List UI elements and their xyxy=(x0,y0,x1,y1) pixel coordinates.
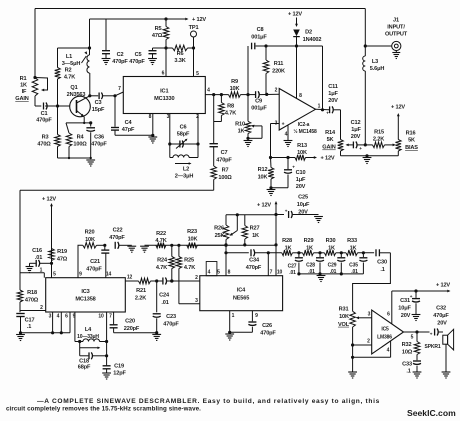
resistor R33 1K xyxy=(346,250,374,256)
wire IC3 pin2 xyxy=(20,310,46,312)
label R10 1K xyxy=(235,122,245,135)
capacitor C35 .01 xyxy=(359,253,367,274)
svg-text:IC3: IC3 xyxy=(81,289,89,295)
svg-text:.01: .01 xyxy=(289,270,296,276)
wire C11 to R14 xyxy=(340,110,342,140)
svg-text:R25: R25 xyxy=(184,258,194,264)
connector J1 xyxy=(392,41,401,50)
capacitor C29 .01 xyxy=(337,253,345,276)
audio amp IC5 LM386 xyxy=(372,310,404,354)
label C10 1uF 20V xyxy=(296,170,306,190)
label C5 470pF xyxy=(129,52,145,65)
label C31 10uF 20V xyxy=(398,298,411,319)
svg-text:+: + xyxy=(292,165,295,170)
label pin 2 IC5 xyxy=(367,339,370,345)
svg-text:R18: R18 xyxy=(27,290,37,296)
svg-text:2: 2 xyxy=(40,305,43,311)
svg-text:L3: L3 xyxy=(372,59,378,65)
svg-text:3: 3 xyxy=(368,312,371,318)
wire IC1 pin8 to ground xyxy=(148,114,157,144)
watermark SeekIC.com xyxy=(407,408,456,418)
svg-text:C6: C6 xyxy=(180,125,187,131)
wire IC3 pin9 up xyxy=(78,245,83,277)
wire IC2 output xyxy=(316,108,330,111)
svg-text:.1: .1 xyxy=(27,324,31,330)
wire NE565 pin8 up xyxy=(224,244,227,276)
svg-text:GAIN: GAIN xyxy=(15,96,28,102)
transistor Q1 2N3563 xyxy=(70,96,91,117)
label R5 47ohm xyxy=(152,26,163,39)
svg-text:R31: R31 xyxy=(339,307,349,313)
label R25 4.7K xyxy=(184,258,195,272)
svg-text:10K: 10K xyxy=(297,150,307,156)
label pin 5 IC3 xyxy=(53,272,56,278)
svg-text:R5: R5 xyxy=(155,26,162,32)
resistor R8 4.7K xyxy=(214,95,225,122)
svg-text:R14: R14 xyxy=(325,130,336,136)
ground below C17 xyxy=(16,335,25,341)
svg-text:25K: 25K xyxy=(215,233,225,239)
wire pin3 node y157.5 xyxy=(269,156,295,159)
op-amp IC3 MC1358 box xyxy=(46,278,126,312)
wire R31 bottom chain xyxy=(348,327,357,378)
label C6 58pF xyxy=(177,125,190,138)
wire C3 to IC1 pin7 xyxy=(115,92,123,96)
capacitor C12 1uF 20V xyxy=(353,142,365,152)
label C33 .1 xyxy=(402,362,412,375)
svg-text:47pF: 47pF xyxy=(122,127,135,133)
label IC3 MC1358 xyxy=(75,289,95,303)
svg-text:47Ω: 47Ω xyxy=(152,33,163,39)
wire R14 bottom xyxy=(341,151,399,157)
svg-text:R6: R6 xyxy=(177,51,184,57)
label pin 9 NE565 xyxy=(255,313,258,319)
svg-text:58pF: 58pF xyxy=(177,132,190,138)
svg-text:5K: 5K xyxy=(408,138,415,144)
label pin 4 IC5 xyxy=(387,348,390,354)
resistor R13 10K xyxy=(295,155,317,161)
wire R26 R27 top rail xyxy=(226,213,276,225)
svg-text:R29: R29 xyxy=(304,238,314,244)
svg-text:4.7K: 4.7K xyxy=(156,265,167,271)
resistor R24 4.7K xyxy=(169,245,175,282)
svg-text:R19: R19 xyxy=(57,249,67,255)
wire top border corner down xyxy=(364,9,367,48)
svg-text:C28: C28 xyxy=(306,263,315,269)
resistor R9 10K xyxy=(229,92,256,98)
label TP1 xyxy=(189,25,199,31)
label pin 6 IC1 xyxy=(162,71,165,77)
wire Q1 collector to L1 xyxy=(88,73,91,97)
svg-text:C9: C9 xyxy=(255,99,262,105)
svg-text:½ MC1458: ½ MC1458 xyxy=(293,128,317,135)
svg-text:+: + xyxy=(326,111,329,116)
wire net y245 xyxy=(145,244,277,247)
resistor R21 2.2K xyxy=(139,278,163,284)
wire L3 junction xyxy=(364,143,373,146)
wire R1 bottom to C1 xyxy=(34,96,36,106)
label pin 8 IC1 xyxy=(149,114,152,120)
label IC2-a xyxy=(298,122,310,128)
inductor L1 adjustable xyxy=(82,48,90,73)
capacitor C16 .01 xyxy=(26,260,52,273)
caption line 1 xyxy=(37,398,380,405)
label pin 12 IC3 xyxy=(127,275,133,281)
wire emitter network bottom xyxy=(58,157,92,159)
svg-text:10μF: 10μF xyxy=(297,202,310,208)
svg-text:4.7K: 4.7K xyxy=(155,238,166,244)
svg-text:1K: 1K xyxy=(328,245,335,251)
label C26 470pF xyxy=(260,323,276,337)
capacitor C22 470pF xyxy=(115,242,136,252)
label pin 8 NE565 xyxy=(228,270,231,276)
label +12V at R13 xyxy=(320,156,334,162)
svg-text:15pF: 15pF xyxy=(92,107,105,113)
wire IC3 pin10 down xyxy=(106,312,108,365)
svg-text:2.2K: 2.2K xyxy=(373,137,384,143)
label R31 10K VOL xyxy=(338,307,350,328)
label pin 8 IC2 xyxy=(299,93,302,99)
svg-text:C20: C20 xyxy=(125,319,135,325)
label R33 1K xyxy=(347,238,357,251)
label R26 25K xyxy=(214,226,224,240)
svg-text:+ 12V: + 12V xyxy=(436,283,450,289)
svg-text:+ 12V: + 12V xyxy=(288,12,302,18)
resistor R28 1K xyxy=(282,250,303,256)
label pin 3 NE565 xyxy=(195,298,198,304)
capacitor C2 470pF to ground xyxy=(102,19,111,65)
label +12V rail xyxy=(192,17,206,23)
label R20 10K xyxy=(85,230,95,244)
capacitor C4 47pF xyxy=(111,96,154,137)
label R27 1K xyxy=(250,226,260,240)
svg-text:3—5μH: 3—5μH xyxy=(62,61,81,67)
svg-text:C16: C16 xyxy=(32,248,42,254)
label C30 .1 xyxy=(377,260,387,274)
svg-text:470pF: 470pF xyxy=(112,59,128,65)
ground below C36 xyxy=(86,160,95,166)
svg-text:10μF: 10μF xyxy=(398,306,411,312)
label C16 .01 xyxy=(32,248,42,261)
resistor R22 4.7K xyxy=(156,243,166,249)
capacitor C24 .01 xyxy=(163,278,200,285)
svg-text:R22: R22 xyxy=(156,231,166,237)
potentiometer R14 5K GAIN xyxy=(338,140,353,152)
label IC1 MC1330 xyxy=(154,89,174,103)
label pins 3 4 6 IC3 xyxy=(49,314,69,320)
svg-text:14: 14 xyxy=(106,272,112,278)
svg-text:C29: C29 xyxy=(328,263,337,269)
capacitor C10 1uF 20V xyxy=(271,158,295,188)
svg-text:C12: C12 xyxy=(351,120,361,126)
svg-text:+ 12V: + 12V xyxy=(42,197,56,203)
svg-text:IC1: IC1 xyxy=(160,89,168,95)
label half MC1458 xyxy=(293,128,317,135)
svg-text:3: 3 xyxy=(195,298,198,304)
svg-text:.01: .01 xyxy=(161,300,168,306)
label R15 2.2K xyxy=(373,130,384,143)
label R14 5K GAIN xyxy=(322,130,336,151)
label C12 1uF 20V xyxy=(351,120,362,140)
capacitor C20 220pF xyxy=(110,312,159,334)
svg-text:220K: 220K xyxy=(272,69,285,75)
svg-text:IC5: IC5 xyxy=(381,327,389,333)
label C35 .01 xyxy=(349,263,358,276)
capacitor C9 .001uF xyxy=(256,91,280,98)
svg-text:R16: R16 xyxy=(406,131,416,137)
svg-text:C24: C24 xyxy=(159,293,170,299)
label C36 470pF xyxy=(91,135,107,148)
svg-text:4.7K: 4.7K xyxy=(64,75,75,81)
svg-text:C27: C27 xyxy=(288,264,297,270)
resistor R11 220K xyxy=(263,46,269,94)
resistor R15 2.2K xyxy=(373,142,396,148)
svg-text:12pF: 12pF xyxy=(113,371,126,377)
svg-text:OUTPUT: OUTPUT xyxy=(385,32,408,38)
resistor R4 100ohm xyxy=(66,123,72,158)
label R12 10K xyxy=(258,167,268,181)
svg-text:C25: C25 xyxy=(298,195,308,201)
svg-text:1K: 1K xyxy=(238,129,245,135)
label pin 10 IC3 xyxy=(98,314,104,320)
ground below speaker xyxy=(442,372,451,378)
svg-text:10K: 10K xyxy=(230,86,240,92)
resistor R6 2.3K xyxy=(166,45,195,51)
svg-text:470Ω: 470Ω xyxy=(37,142,51,148)
svg-text:001μF: 001μF xyxy=(251,35,267,41)
wire D2 to IC2 pin8 xyxy=(296,46,298,98)
wire +12V audio rail xyxy=(392,289,451,292)
svg-text:+: + xyxy=(430,332,433,337)
capacitor C34 470pF xyxy=(226,249,282,256)
resistor R18 470ohm xyxy=(17,290,23,312)
svg-text:470pF: 470pF xyxy=(91,142,107,148)
label pin 2 IC2 xyxy=(275,88,278,94)
svg-text:.1: .1 xyxy=(380,267,384,273)
svg-text:1K: 1K xyxy=(285,245,292,251)
label C2 470pF xyxy=(112,52,128,65)
svg-text:C36: C36 xyxy=(94,135,104,141)
svg-text:1: 1 xyxy=(40,268,43,274)
svg-text:C23: C23 xyxy=(166,314,176,320)
svg-text:.1: .1 xyxy=(406,369,410,375)
label pin 1 IC2 xyxy=(318,104,321,110)
svg-text:D2: D2 xyxy=(305,30,312,36)
svg-text:2: 2 xyxy=(195,275,198,281)
svg-text:R23: R23 xyxy=(187,229,197,235)
label R19 47ohm xyxy=(57,249,68,263)
label pin 3 IC5 xyxy=(368,312,371,318)
label C34 470pF xyxy=(246,258,262,272)
label +12V at R16 xyxy=(391,105,405,111)
label pin 9 IC3 bottom xyxy=(73,314,76,320)
svg-text:1N4002: 1N4002 xyxy=(303,37,322,43)
svg-text:+: + xyxy=(359,146,362,151)
svg-text:C32: C32 xyxy=(436,306,446,312)
svg-text:+: + xyxy=(282,122,285,128)
svg-text:C21: C21 xyxy=(90,259,100,265)
svg-text:2: 2 xyxy=(275,88,278,94)
label +12V audio xyxy=(436,283,450,289)
label C32 470uF 20V xyxy=(433,306,449,327)
svg-text:VOL: VOL xyxy=(338,322,350,328)
svg-text:R20: R20 xyxy=(85,230,95,236)
svg-text:C34: C34 xyxy=(249,258,260,264)
label R8 4.7K xyxy=(225,104,236,117)
label +12V IC3 xyxy=(42,197,56,203)
svg-text:C26: C26 xyxy=(262,323,272,329)
potentiometer R26 25K xyxy=(223,215,237,247)
svg-text:—A COMPLETE SINEWAVE DESCRAMBL: —A COMPLETE SINEWAVE DESCRAMBLER. Easy t… xyxy=(37,398,380,405)
ground below J1 xyxy=(392,51,400,59)
svg-text:R7: R7 xyxy=(222,168,229,174)
capacitor C23 470pF xyxy=(153,281,161,333)
wire to J1 xyxy=(365,45,391,47)
label C23 470pF xyxy=(163,314,179,328)
svg-text:C31: C31 xyxy=(400,298,410,304)
svg-text:3: 3 xyxy=(167,114,170,120)
label pin 4 IC2 xyxy=(285,132,288,138)
label +12V mid xyxy=(257,203,271,209)
wire left input rail upper xyxy=(34,9,36,78)
svg-text:8: 8 xyxy=(299,93,302,99)
svg-text:4.7K: 4.7K xyxy=(225,111,236,117)
svg-text:8: 8 xyxy=(149,114,152,120)
label L2 2-3uH xyxy=(175,167,194,180)
svg-text:IC4: IC4 xyxy=(237,288,246,294)
capacitor C36 470pF xyxy=(86,123,95,158)
wire base node xyxy=(35,104,70,107)
label R24 4.7K xyxy=(156,258,168,272)
label IC4 NE565 xyxy=(233,288,249,302)
capacitor C5 470pF to ground xyxy=(148,48,157,65)
svg-text:68pF: 68pF xyxy=(78,365,91,371)
svg-text:.01: .01 xyxy=(35,255,42,261)
label C28 .01 xyxy=(306,263,315,276)
wire IC3 pin1 xyxy=(20,273,44,278)
wire emitter node y123 xyxy=(66,121,92,124)
svg-text:C4: C4 xyxy=(125,120,133,126)
svg-text:5.6μH: 5.6μH xyxy=(370,66,385,72)
label C24 .01 xyxy=(159,293,170,307)
label C19 12pF xyxy=(113,364,126,377)
wire NE565 pin3 xyxy=(179,303,200,305)
svg-text:L2: L2 xyxy=(183,167,189,173)
svg-text:C8: C8 xyxy=(257,27,264,33)
label pin 7 IC3 xyxy=(109,314,112,320)
capacitor C19 12pF xyxy=(102,366,111,379)
svg-text:10K: 10K xyxy=(258,175,268,181)
svg-text:circuit completely removes the: circuit completely removes the 15.75-kHz… xyxy=(6,406,201,413)
label C21 470pF xyxy=(86,259,102,273)
capacitor C18 68pF xyxy=(80,342,109,360)
label R11 220K xyxy=(272,61,285,75)
caption line 2 xyxy=(6,406,201,413)
wire NE565 pin7 up xyxy=(267,253,269,276)
svg-text:C1: C1 xyxy=(41,111,48,117)
svg-text:L4: L4 xyxy=(85,327,92,333)
svg-text:1: 1 xyxy=(318,104,321,110)
svg-text:1: 1 xyxy=(232,313,235,319)
label R22 4.7K xyxy=(155,231,166,244)
label R9 10K xyxy=(230,79,240,92)
wire +12V rail top xyxy=(90,18,189,21)
potentiometer R1 xyxy=(32,76,47,96)
svg-text:20V: 20V xyxy=(298,210,308,216)
svg-text:220pF: 220pF xyxy=(124,326,140,332)
wire IC5 pin2 xyxy=(353,344,372,346)
resistor R20 10K xyxy=(83,243,107,249)
wire IC3 pins 3 4 6 ground bus xyxy=(21,312,71,334)
wire IC3 input net xyxy=(20,189,214,191)
label pin 3 IC1 xyxy=(167,114,170,120)
svg-text:20V: 20V xyxy=(296,184,306,190)
svg-text:MC1330: MC1330 xyxy=(154,96,174,102)
capacitor C27 .01 xyxy=(295,253,303,276)
svg-text:1μF: 1μF xyxy=(351,127,361,133)
speaker SPKR1 xyxy=(443,329,454,371)
wire C30 to R31 xyxy=(353,253,391,311)
label C7 470pF xyxy=(216,150,232,164)
resistor R29 1K xyxy=(303,250,325,256)
svg-text:6: 6 xyxy=(65,314,68,320)
svg-text:C11: C11 xyxy=(328,84,338,90)
wire IC2 pin4 ground xyxy=(284,125,293,146)
wire TP1 to IC1 pin5 xyxy=(193,37,195,77)
svg-text:9: 9 xyxy=(255,313,258,319)
svg-text:R3: R3 xyxy=(42,135,49,141)
svg-text:10—33μH: 10—33μH xyxy=(77,334,99,340)
svg-text:10K: 10K xyxy=(85,237,95,243)
label pin 2 IC1 xyxy=(196,114,199,120)
label C9 .001uF xyxy=(251,99,267,112)
label pin 7 NE565 xyxy=(270,270,273,276)
wire IC1 pin2 down xyxy=(196,114,199,146)
label R4 100ohm xyxy=(73,135,87,148)
svg-text:J1: J1 xyxy=(393,18,399,24)
svg-text:TP1: TP1 xyxy=(189,25,199,31)
svg-text:C33: C33 xyxy=(402,362,412,368)
svg-text:470Ω: 470Ω xyxy=(25,298,39,304)
wire C5 to R5 junction xyxy=(153,46,168,49)
svg-text:10K: 10K xyxy=(188,237,198,243)
svg-text:470pF: 470pF xyxy=(129,59,145,65)
svg-text:C19: C19 xyxy=(114,364,124,370)
svg-text:C17: C17 xyxy=(25,318,35,324)
svg-text:R8: R8 xyxy=(227,104,234,110)
svg-text:6: 6 xyxy=(162,71,165,77)
wire pins 4-5 loop xyxy=(206,262,217,276)
svg-text:1μF: 1μF xyxy=(296,177,306,183)
svg-text:NE565: NE565 xyxy=(233,296,249,302)
svg-text:2N3563: 2N3563 xyxy=(67,92,86,98)
svg-text:C2: C2 xyxy=(117,52,124,58)
svg-text:3.3K: 3.3K xyxy=(174,58,185,64)
svg-text:6: 6 xyxy=(387,312,390,318)
label R32 10ohm xyxy=(402,342,413,356)
capacitor C7 470pF xyxy=(210,95,218,166)
svg-text:R4: R4 xyxy=(77,135,85,141)
label R29 1K xyxy=(304,238,314,251)
svg-text:R28: R28 xyxy=(282,238,292,244)
svg-text:7: 7 xyxy=(109,314,112,320)
wire IC1 pin4 xyxy=(205,93,228,96)
label L1 3-5uH xyxy=(62,54,81,67)
svg-text:C7: C7 xyxy=(221,150,228,156)
capacitor C21 470pF xyxy=(101,245,109,277)
svg-text:BIAS: BIAS xyxy=(405,145,418,151)
svg-text:1K: 1K xyxy=(252,233,259,239)
